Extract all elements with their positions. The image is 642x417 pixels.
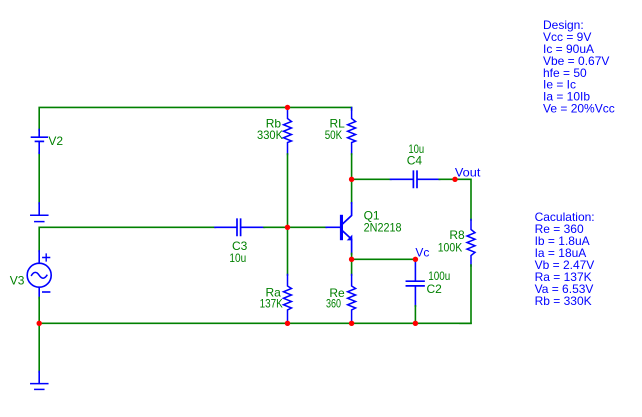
capacitor C3 — [215, 219, 264, 235]
svg-text:330K: 330K — [257, 128, 283, 142]
resistor R8 — [467, 220, 475, 267]
resistor Re — [348, 275, 356, 322]
wire bottom ground rail — [38, 322, 471, 324]
wire emitter node down to Re — [351, 259, 353, 275]
wire V2- to ground — [38, 153, 40, 204]
svg-text:C2: C2 — [427, 282, 443, 296]
wire C2 bottom to bottom rail — [414, 306, 416, 324]
node Vout junction — [452, 177, 457, 182]
svg-text:360: 360 — [326, 297, 341, 311]
wire Vout node to R8 top — [455, 179, 471, 220]
svg-text:Ve = 20%Vcc: Ve = 20%Vcc — [543, 102, 615, 116]
battery V2 — [32, 130, 48, 154]
wire base junction down to Ra — [287, 227, 289, 275]
wire Q1 emitter to emitter node — [351, 254, 353, 260]
node junction dots — [37, 105, 458, 326]
node collector junction — [349, 177, 354, 182]
svg-text:50K: 50K — [325, 128, 343, 142]
wire C3 to base junction — [264, 226, 288, 228]
resistor RL — [348, 108, 356, 155]
wire base junction to Q1 base — [288, 226, 327, 228]
capacitor C2 — [406, 261, 424, 306]
svg-text:137K: 137K — [260, 296, 283, 310]
wire bottom node down to ground — [38, 323, 40, 372]
svg-text:100K: 100K — [438, 241, 463, 255]
svg-text:V3: V3 — [10, 274, 25, 288]
resistor Rb — [284, 109, 292, 155]
wire RL bottom to collector node — [351, 154, 353, 179]
svg-text:Vc: Vc — [415, 246, 429, 260]
wire C4 to Vout node — [439, 178, 455, 180]
wire collector node right to C4 — [352, 178, 391, 180]
capacitor C4 — [391, 171, 440, 187]
node Ra bottom junction — [285, 321, 290, 326]
svg-text:10u: 10u — [229, 251, 246, 265]
node base junction — [285, 225, 290, 230]
wire V3+ up and right to C3 — [39, 227, 215, 251]
node V3 bottom junction — [37, 321, 42, 326]
wire collector node to Q1 collector — [351, 179, 353, 203]
svg-text:V2: V2 — [48, 134, 63, 148]
node Vc junction — [413, 257, 418, 262]
resistor Ra — [284, 275, 292, 322]
calculation annotation text block — [535, 210, 595, 308]
ground (below V2) — [31, 203, 48, 222]
svg-text:C4: C4 — [407, 154, 423, 168]
wire emitter node right to Vc node — [352, 258, 416, 260]
ground (below V3) — [31, 372, 48, 390]
wire R8 bottom to bottom rail — [460, 265, 471, 323]
transistor Q1 — [326, 203, 352, 254]
svg-text:100u: 100u — [428, 269, 450, 283]
node C2 bottom junction — [413, 321, 418, 326]
node Re bottom junction — [349, 321, 354, 326]
wire Rb bottom to base junction — [287, 154, 289, 227]
design annotation text block — [543, 18, 615, 115]
AC source V3 — [27, 251, 51, 299]
svg-text:Vout: Vout — [455, 166, 481, 180]
node emitter junction — [349, 257, 354, 262]
svg-text:Rb = 330K: Rb = 330K — [535, 294, 592, 308]
wire Vcc top rail from V2+ to RL top — [39, 107, 351, 130]
svg-text:2N2218: 2N2218 — [364, 221, 402, 235]
node Vcc/Rb junction — [285, 105, 290, 110]
wire V3- to bottom rail node — [38, 298, 40, 324]
